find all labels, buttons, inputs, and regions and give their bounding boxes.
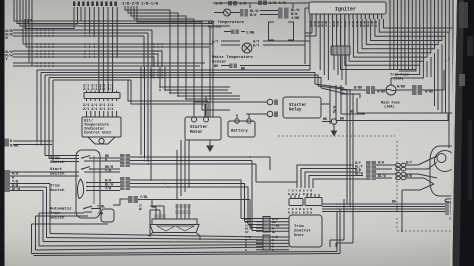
svg-text:R/BK: R/BK — [10, 144, 19, 149]
wire rowF bundle with left corners down — [37, 70, 240, 80]
dashed boundary horizontal mid — [278, 135, 395, 137]
box battery — [228, 121, 255, 137]
connector left R/BK — [4, 139, 9, 147]
svg-text:Unit: Unit — [294, 233, 304, 238]
bracket grouping 2 — [288, 22, 294, 40]
small housing box lower right of switch — [101, 209, 114, 222]
bracket grouping right of air sensor — [269, 22, 275, 40]
igniter pin row — [312, 14, 382, 19]
connector fuse right — [412, 85, 417, 95]
trim connector right block — [445, 201, 449, 215]
switch housing outline — [76, 150, 100, 218]
stop switch contacts — [82, 156, 103, 162]
wire extra verticals right of igniter from top edge — [390, 0, 412, 70]
battery terminals — [235, 119, 239, 123]
wires to trim motor — [414, 156, 437, 184]
fuse symbol trim — [386, 85, 396, 95]
automatic trim switch contacts — [84, 206, 92, 212]
wires from stop/start connector east — [130, 157, 256, 164]
wire relay feeds — [230, 102, 267, 114]
svg-text:Control: Control — [294, 229, 311, 234]
svg-text:Motor: Motor — [190, 131, 203, 135]
wire left field lower horizontals — [13, 141, 52, 145]
wire 4-row bundle east to corners — [240, 70, 321, 88]
reflection smudges in right bar — [459, 2, 468, 28]
svg-text:G: G — [245, 248, 247, 252]
svg-text:B/BL: B/BL — [332, 106, 336, 114]
wire relay right side — [321, 85, 365, 124]
svg-text:Y/B: Y/B — [137, 204, 142, 210]
wire fuse feed — [340, 90, 366, 98]
wire nested rectangles top-left — [25, 7, 81, 29]
wire junction east long — [337, 113, 448, 121]
svg-text:B B W L B B W: B B W L B B W — [288, 210, 312, 214]
svg-text:Sensor: Sensor — [208, 25, 223, 30]
svg-text:B B W L B B W: B B W L B B W — [288, 192, 312, 196]
sensor bottom corners to buses — [148, 233, 200, 241]
step-down wires arriving at trim strips — [241, 219, 263, 231]
bus lines bottom — [36, 234, 264, 251]
svg-text:2/B-2/B 1/B-1/B: 2/B-2/B 1/B-1/B — [122, 2, 159, 7]
svg-text:Control Unit: Control Unit — [84, 131, 111, 136]
motor lead verticals down to sensor — [177, 140, 189, 200]
connector strip mid under igniter — [331, 46, 350, 55]
ground arrow under junction — [332, 131, 337, 136]
wire mid verticals long — [141, 21, 213, 180]
wires switches to connectors — [103, 158, 120, 172]
dashed boundary right lower — [397, 218, 456, 231]
junction dots stair cluster — [159, 86, 161, 88]
wire pins descending — [85, 7, 117, 92]
connector pair right of stop/start — [120, 154, 125, 167]
svg-text:1/BK: 1/BK — [291, 16, 300, 21]
svg-text:BL/W: BL/W — [378, 174, 386, 178]
wire row2 horizontals — [13, 51, 162, 67]
wires from trim connector east then down — [130, 180, 248, 225]
svg-text:2/1 2/1 2/1 2/1: 2/1 2/1 2/1 2/1 — [83, 87, 114, 92]
box starter relay — [283, 97, 321, 118]
svg-text:Switch: Switch — [50, 188, 65, 193]
wires into strips — [256, 219, 289, 250]
svg-text:Sensor: Sensor — [212, 60, 227, 65]
svg-text:Start: Start — [50, 167, 63, 172]
wire right corners above fuses — [391, 44, 442, 113]
boxes above trim unit — [289, 199, 303, 206]
junction ticks field2 — [85, 20, 117, 58]
svg-text:Stop: Stop — [50, 157, 60, 161]
svg-text:A/Y: A/Y — [212, 40, 219, 45]
svg-text:Water Temperature: Water Temperature — [212, 55, 253, 60]
connector pair right of trim switch — [120, 177, 125, 190]
box igniter — [309, 2, 386, 14]
svg-text:2/1 2/1 2/1 2/1: 2/1 2/1 2/1 2/1 — [83, 107, 114, 112]
svg-text:Y/BL: Y/BL — [140, 195, 148, 200]
wires connector to bullets — [376, 165, 396, 178]
svg-text:Trim: Trim — [294, 224, 304, 229]
connector fuse left — [366, 86, 370, 94]
sensor pins left group — [150, 206, 164, 237]
svg-text:Starter: Starter — [190, 126, 208, 130]
pin stubs above boxes — [291, 194, 319, 199]
left black bezel bar — [0, 0, 5, 266]
verticals 344-353 — [344, 90, 353, 243]
trim motor body — [430, 146, 456, 196]
circled junction under relay — [331, 119, 337, 125]
dashed boundary vertical right — [396, 141, 398, 205]
right black bezel bar — [453, 0, 474, 266]
wires from left connector east then down to buses — [10, 184, 50, 191]
trim sensor strip assembly — [152, 219, 197, 225]
wire right long verticals — [446, 28, 456, 160]
wire igniter fan nested corners — [341, 0, 454, 70]
connector top row1 — [228, 1, 232, 6]
wire row1 horizontals — [13, 30, 152, 36]
wire rowE pair — [13, 0, 205, 66]
svg-text:BL/B: BL/B — [355, 172, 363, 176]
connector automatic trim right — [128, 196, 133, 203]
svg-text:Air Temperature: Air Temperature — [208, 20, 245, 25]
svg-text:Trim: Trim — [50, 184, 60, 189]
box trim control unit — [289, 215, 322, 247]
svg-text:BL: BL — [272, 230, 276, 234]
trim switch rocker — [77, 179, 83, 199]
connector pair 2 — [278, 8, 283, 19]
svg-text:W/Y: W/Y — [253, 44, 260, 49]
junction ticks field1 — [37, 29, 53, 146]
wire bundle left of igniter down — [305, 8, 310, 70]
paper edge highlight before right bar — [450, 0, 458, 266]
sensor pins right group — [177, 204, 189, 219]
svg-text:B/W: B/W — [250, 13, 257, 18]
connector pair air sensor — [240, 9, 244, 17]
connector right mid — [366, 161, 371, 180]
wire igniter left pins descending — [312, 19, 345, 46]
wire stair from top connector labels — [125, 6, 202, 67]
svg-text:R/BK: R/BK — [397, 85, 406, 90]
wire top-left bundle2 verticals — [23, 0, 26, 47]
air temperature sensor symbol — [224, 9, 231, 16]
svg-text://B: //B — [97, 212, 103, 217]
wires from left connector east — [10, 172, 79, 176]
junction dots on those wires — [140, 156, 142, 158]
wire housing bottom west down — [32, 224, 109, 254]
svg-text:GY: GY — [245, 230, 249, 234]
svg-text:G: G — [272, 248, 274, 252]
junction dots mid wires — [336, 203, 338, 205]
wire diagonals to fuse junctions — [315, 84, 350, 94]
bottom double line — [32, 252, 341, 256]
starter motor terminals — [192, 117, 197, 122]
wire corners lower pair — [128, 80, 208, 117]
wire long under fuses — [357, 98, 452, 113]
svg-text:B/BK: B/BK — [354, 86, 363, 91]
extra step wires — [252, 161, 297, 231]
wire rowF corner verticals descending — [37, 70, 53, 162]
wire top-left vertical bundle turning east — [14, 0, 230, 26]
wire rowC pair — [23, 0, 213, 47]
connector strip trim unit upper — [263, 217, 270, 233]
svg-text:Relay: Relay — [289, 108, 302, 113]
svg-text:1/B: 1/B — [215, 2, 223, 7]
svg-text:Automatic: Automatic — [50, 207, 72, 212]
wires across to trim connector right — [322, 204, 445, 212]
svg-text:(20A): (20A) — [393, 77, 404, 82]
svg-text:Battery: Battery — [231, 129, 248, 134]
svg-text:B/Y: B/Y — [406, 161, 412, 165]
svg-text:(10A): (10A) — [384, 105, 395, 110]
wires from automatic trim west down — [36, 213, 89, 250]
ground arrow under starter motor — [207, 140, 213, 151]
wire mid stair corners to east — [160, 67, 240, 110]
mounting tab with hole below control unit — [88, 137, 115, 144]
svg-text:B/B: B/B — [406, 174, 412, 178]
housing internal link line — [93, 156, 95, 204]
wires into housing from left verticals — [45, 156, 79, 162]
water temperature sensor symbol — [242, 43, 252, 53]
connector pin row top edge — [73, 2, 75, 7]
svg-text:1/BK: 1/BK — [246, 31, 255, 36]
svg-text:Switch: Switch — [50, 160, 65, 165]
connector strip oil temp unit — [84, 93, 120, 99]
wire motor lower down — [402, 184, 434, 232]
bullet connectors — [396, 163, 401, 167]
svg-text:1/B: 1/B — [239, 2, 247, 7]
start switch contacts — [82, 167, 103, 173]
box starter motor — [185, 117, 221, 140]
nested wires from trim area going up-right — [297, 165, 366, 188]
left connector lower — [4, 170, 10, 192]
connector Y/BL wire — [138, 200, 250, 228]
box oil temperature indicator control unit — [82, 117, 121, 137]
connector strip trim unit lower — [263, 235, 270, 250]
svg-text:BK: BK — [392, 200, 396, 204]
pin row into control unit — [87, 111, 117, 117]
junction dots trim wires — [150, 179, 152, 181]
junction ticks field3 — [144, 43, 202, 79]
starter relay terminals — [267, 99, 273, 105]
svg-text:Starter: Starter — [289, 104, 307, 108]
svg-text:B/W: B/W — [378, 161, 384, 165]
trim motor circle — [435, 151, 456, 172]
wire 1/BK row — [224, 31, 245, 33]
svg-text:Igniter: Igniter — [335, 7, 356, 13]
wire W/ row under igniter — [305, 33, 316, 36]
wire top to igniter — [213, 3, 309, 8]
